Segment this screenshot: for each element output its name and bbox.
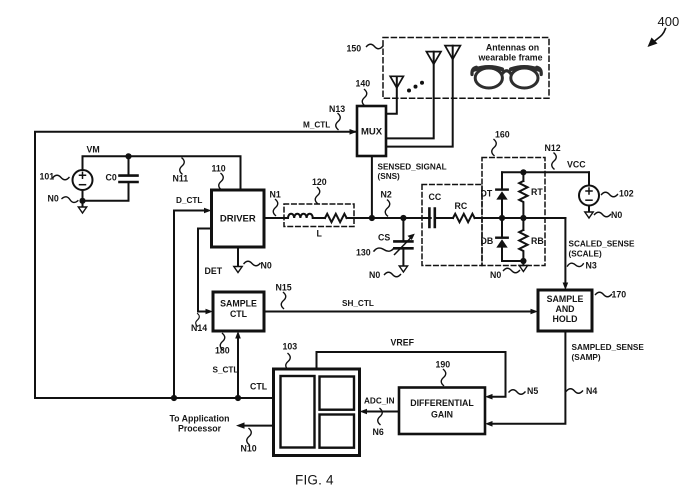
svg-text:VREF: VREF: [391, 338, 415, 348]
lead squiggle N4: [567, 389, 583, 394]
svg-text:N3: N3: [586, 261, 597, 271]
block DIFFERENTIAL GAIN 190: [399, 388, 485, 435]
svg-text:RB: RB: [531, 236, 544, 246]
block 103 left inner rect: [281, 376, 315, 448]
lead squiggle N1: [273, 200, 278, 216]
wire DRIVER output to inductor: [264, 217, 288, 219]
svg-text:150: 150: [347, 44, 362, 54]
diode DB: [496, 218, 507, 261]
arrowhead M_CTL into MUX: [350, 129, 358, 135]
wire VCC drop: [588, 172, 590, 185]
svg-text:SAMPLE: SAMPLE: [220, 299, 257, 309]
wire RC to network: [475, 217, 566, 219]
lead squiggle 102: [602, 192, 618, 197]
svg-text:M_CTL: M_CTL: [303, 120, 330, 129]
svg-text:ADC_IN: ADC_IN: [364, 397, 395, 406]
svg-text:DT: DT: [481, 189, 493, 199]
svg-text:S_CTL: S_CTL: [213, 365, 239, 374]
svg-text:L: L: [317, 229, 323, 239]
svg-text:N13: N13: [329, 104, 345, 114]
junction on CTL line at S_CTL: [235, 395, 241, 401]
wire DET from DRIVER to SAMPLE CTL: [198, 229, 212, 312]
lead squiggle N5: [509, 390, 525, 395]
svg-text:SAMPLED_SENSE: SAMPLED_SENSE: [572, 343, 645, 352]
lead squiggle N11: [180, 158, 185, 174]
top rail of 160 network: [502, 171, 589, 173]
node DT/DB junction: [499, 215, 505, 221]
wire VREF from 103 to DIFF GAIN: [317, 352, 506, 397]
svg-text:RT: RT: [531, 187, 543, 197]
svg-text:DRIVER: DRIVER: [220, 214, 256, 225]
dashed box CC RC: [422, 185, 482, 266]
block SAMPLE CTL 180: [213, 292, 264, 331]
node bottom rail junction: [520, 258, 526, 264]
svg-text:DET: DET: [205, 266, 223, 276]
svg-text:400: 400: [658, 14, 680, 29]
block 103 bottom-right inner rect: [320, 415, 355, 448]
lead squiggle N12: [552, 153, 557, 169]
lead squiggle N2: [385, 200, 390, 216]
svg-text:MUX: MUX: [361, 127, 383, 138]
lead squiggle 101: [53, 175, 69, 180]
wire between L and series resistor: [313, 217, 325, 219]
wire VM rail: [83, 156, 241, 190]
svg-text:FIG. 4: FIG. 4: [295, 473, 334, 488]
lead squiggle 130: [374, 246, 394, 253]
ground below CS: [399, 266, 407, 272]
svg-text:SCALED_SENSE: SCALED_SENSE: [569, 240, 636, 249]
block SAMPLE AND HOLD 170: [538, 290, 592, 331]
node RT/RB junction: [520, 215, 526, 221]
lead squiggle N0 of 160: [504, 268, 520, 273]
wire SCALED_SENSE down to sample and hold: [564, 218, 566, 285]
lead squiggle N15: [281, 293, 286, 309]
lead squiggle 140: [362, 90, 367, 106]
arrowhead VREF into DIFF GAIN: [485, 394, 493, 400]
voltage source 102: [579, 186, 599, 206]
wire C0 bottom return: [83, 182, 129, 200]
node CS junction: [400, 215, 406, 221]
antenna 2 (middle): [386, 52, 441, 139]
svg-text:Antennas on: Antennas on: [486, 43, 539, 53]
inductor L: [288, 214, 313, 218]
svg-text:N15: N15: [276, 283, 292, 293]
junction on CTL line at D_CTL: [171, 395, 177, 401]
svg-text:110: 110: [212, 164, 226, 174]
node top rail RT junction: [520, 169, 526, 175]
wire resistor to node N2: [347, 217, 431, 219]
svg-text:130: 130: [356, 248, 371, 258]
lead squiggle N3: [567, 262, 583, 269]
svg-text:N12: N12: [545, 143, 561, 153]
svg-text:(SNS): (SNS): [378, 172, 401, 181]
ground below DRIVER: [234, 267, 242, 273]
arrowhead DET into SAMPLE CTL: [206, 309, 214, 315]
svg-text:CC: CC: [429, 192, 442, 202]
lead squiggle N0 of CS: [385, 272, 401, 277]
svg-text:160: 160: [495, 130, 510, 140]
svg-text:DIFFERENTIAL: DIFFERENTIAL: [410, 398, 474, 408]
svg-text:101: 101: [40, 172, 55, 182]
svg-text:SENSED_SIGNAL: SENSED_SIGNAL: [378, 162, 447, 171]
capacitor C0: [120, 156, 138, 182]
bottom rail of 160 network: [502, 260, 523, 262]
wire SH_CTL: [264, 311, 533, 313]
wire bottom rail to ground: [522, 261, 524, 266]
block 103 top-right inner rect: [320, 377, 355, 410]
glasses icon: [472, 67, 541, 88]
arrowhead SAMP into DIFF GAIN: [485, 421, 493, 427]
svg-text:N1: N1: [270, 190, 281, 200]
wire D_CTL: [174, 211, 207, 399]
svg-text:102: 102: [619, 189, 634, 199]
svg-text:N0: N0: [611, 210, 622, 220]
arrowhead S_CTL into SAMPLE CTL bottom: [235, 331, 241, 339]
lead squiggle N14: [196, 314, 200, 327]
svg-text:N0: N0: [369, 270, 380, 280]
arrowhead SH_CTL into SAMPLE AND HOLD: [531, 309, 539, 315]
lead squiggle 120: [315, 188, 320, 204]
svg-text:N0: N0: [490, 270, 501, 280]
lead squiggle 103: [286, 354, 291, 370]
lead squiggle 150: [367, 44, 383, 49]
lead squiggle 180: [220, 334, 225, 350]
lead squiggle 170: [596, 292, 612, 297]
svg-text:RC: RC: [455, 201, 468, 211]
node N2 junction: [369, 215, 375, 221]
arrowhead into SAMPLE AND HOLD top: [563, 283, 569, 291]
svg-text:To Application: To Application: [169, 413, 229, 423]
svg-text:SH_CTL: SH_CTL: [342, 299, 374, 308]
wire M_CTL from left border loop into MUX: [35, 132, 357, 398]
wire to application processor: [243, 425, 274, 427]
wire S_CTL up into SAMPLE CTL: [237, 337, 239, 399]
ground below 160 network: [519, 266, 527, 272]
lead squiggle 160: [492, 140, 497, 156]
svg-text:N0: N0: [261, 261, 272, 271]
resistor RC: [453, 214, 475, 222]
resistor RT: [519, 172, 527, 218]
lead squiggle 110: [219, 174, 224, 190]
lead squiggle N0 of 101: [62, 196, 78, 203]
wire ADC_IN: [365, 411, 399, 413]
svg-text:N11: N11: [173, 174, 189, 184]
dashed box 160: [482, 158, 545, 266]
svg-text:GAIN: GAIN: [431, 410, 453, 420]
node 101/C0 bottom junction: [79, 198, 85, 204]
svg-text:VCC: VCC: [567, 160, 586, 170]
svg-text:140: 140: [356, 79, 371, 89]
svg-text:CTL: CTL: [230, 309, 248, 319]
resistor RB: [519, 218, 527, 258]
svg-text:190: 190: [436, 360, 451, 370]
ground below 101: [78, 207, 86, 213]
svg-text:D_CTL: D_CTL: [176, 196, 202, 205]
arrow 400 curved: [648, 29, 666, 48]
antenna 3 (large): [386, 46, 460, 147]
lead squiggle N6: [378, 409, 383, 425]
svg-text:CTL: CTL: [250, 382, 268, 392]
svg-text:(SAMP): (SAMP): [572, 353, 601, 362]
svg-text:CS: CS: [378, 233, 390, 243]
svg-text:wearable frame: wearable frame: [477, 53, 542, 63]
diode DT: [496, 172, 507, 218]
svg-text:HOLD: HOLD: [553, 314, 578, 324]
svg-text:SAMPLE: SAMPLE: [547, 294, 584, 304]
lead squiggle N10: [247, 429, 252, 445]
svg-text:N4: N4: [586, 386, 597, 396]
svg-text:Processor: Processor: [178, 424, 222, 434]
ellipsis dots between antennas: [407, 81, 424, 93]
svg-text:103: 103: [283, 342, 298, 352]
svg-text:N14: N14: [191, 323, 207, 333]
lead squiggle N13: [336, 114, 341, 130]
wire 102 to ground: [588, 206, 590, 213]
arrowhead to application processor: [236, 422, 245, 428]
resistor in 120 box: [325, 214, 347, 222]
svg-text:AND: AND: [555, 304, 574, 314]
svg-text:(SCALE): (SCALE): [569, 249, 602, 258]
lead squiggle N0 of DRIVER: [244, 261, 260, 266]
svg-text:N2: N2: [381, 190, 392, 200]
svg-text:DB: DB: [481, 236, 494, 246]
arrowhead ADC_IN into 103: [360, 409, 368, 415]
block MUX: [357, 106, 386, 156]
dashed box 150 antennas: [383, 38, 549, 99]
lead squiggle 190: [441, 370, 446, 386]
svg-text:N5: N5: [527, 386, 538, 396]
wire SAMPLED_SENSE from S and H to DIFFERENTIAL GAIN: [491, 332, 566, 424]
wire DRIVER ground lead: [237, 247, 239, 267]
ground below 102: [585, 212, 593, 218]
voltage source 101: [73, 170, 93, 190]
block DRIVER 110: [212, 190, 265, 247]
wire CC to RC: [436, 217, 453, 219]
svg-text:120: 120: [312, 177, 327, 187]
capacitor CC: [429, 209, 434, 228]
dashed box 120: [284, 204, 354, 227]
svg-text:N10: N10: [241, 444, 257, 454]
lead squiggle N0 of 102: [595, 212, 611, 217]
arrowhead D_CTL into DRIVER: [204, 208, 212, 214]
svg-text:N6: N6: [373, 427, 384, 437]
wire 101 bottom: [82, 190, 84, 207]
svg-text:C0: C0: [106, 173, 117, 183]
svg-text:170: 170: [612, 290, 627, 300]
svg-text:VM: VM: [87, 145, 100, 155]
node VM junction dot: [125, 153, 131, 159]
block 103 ADC outer: [274, 369, 360, 456]
antenna 1 (small): [386, 76, 403, 113]
wire MUX to N2: [371, 156, 373, 218]
svg-text:N0: N0: [48, 194, 59, 204]
svg-text:180: 180: [215, 346, 230, 356]
capacitor CS (variable): [394, 218, 414, 266]
